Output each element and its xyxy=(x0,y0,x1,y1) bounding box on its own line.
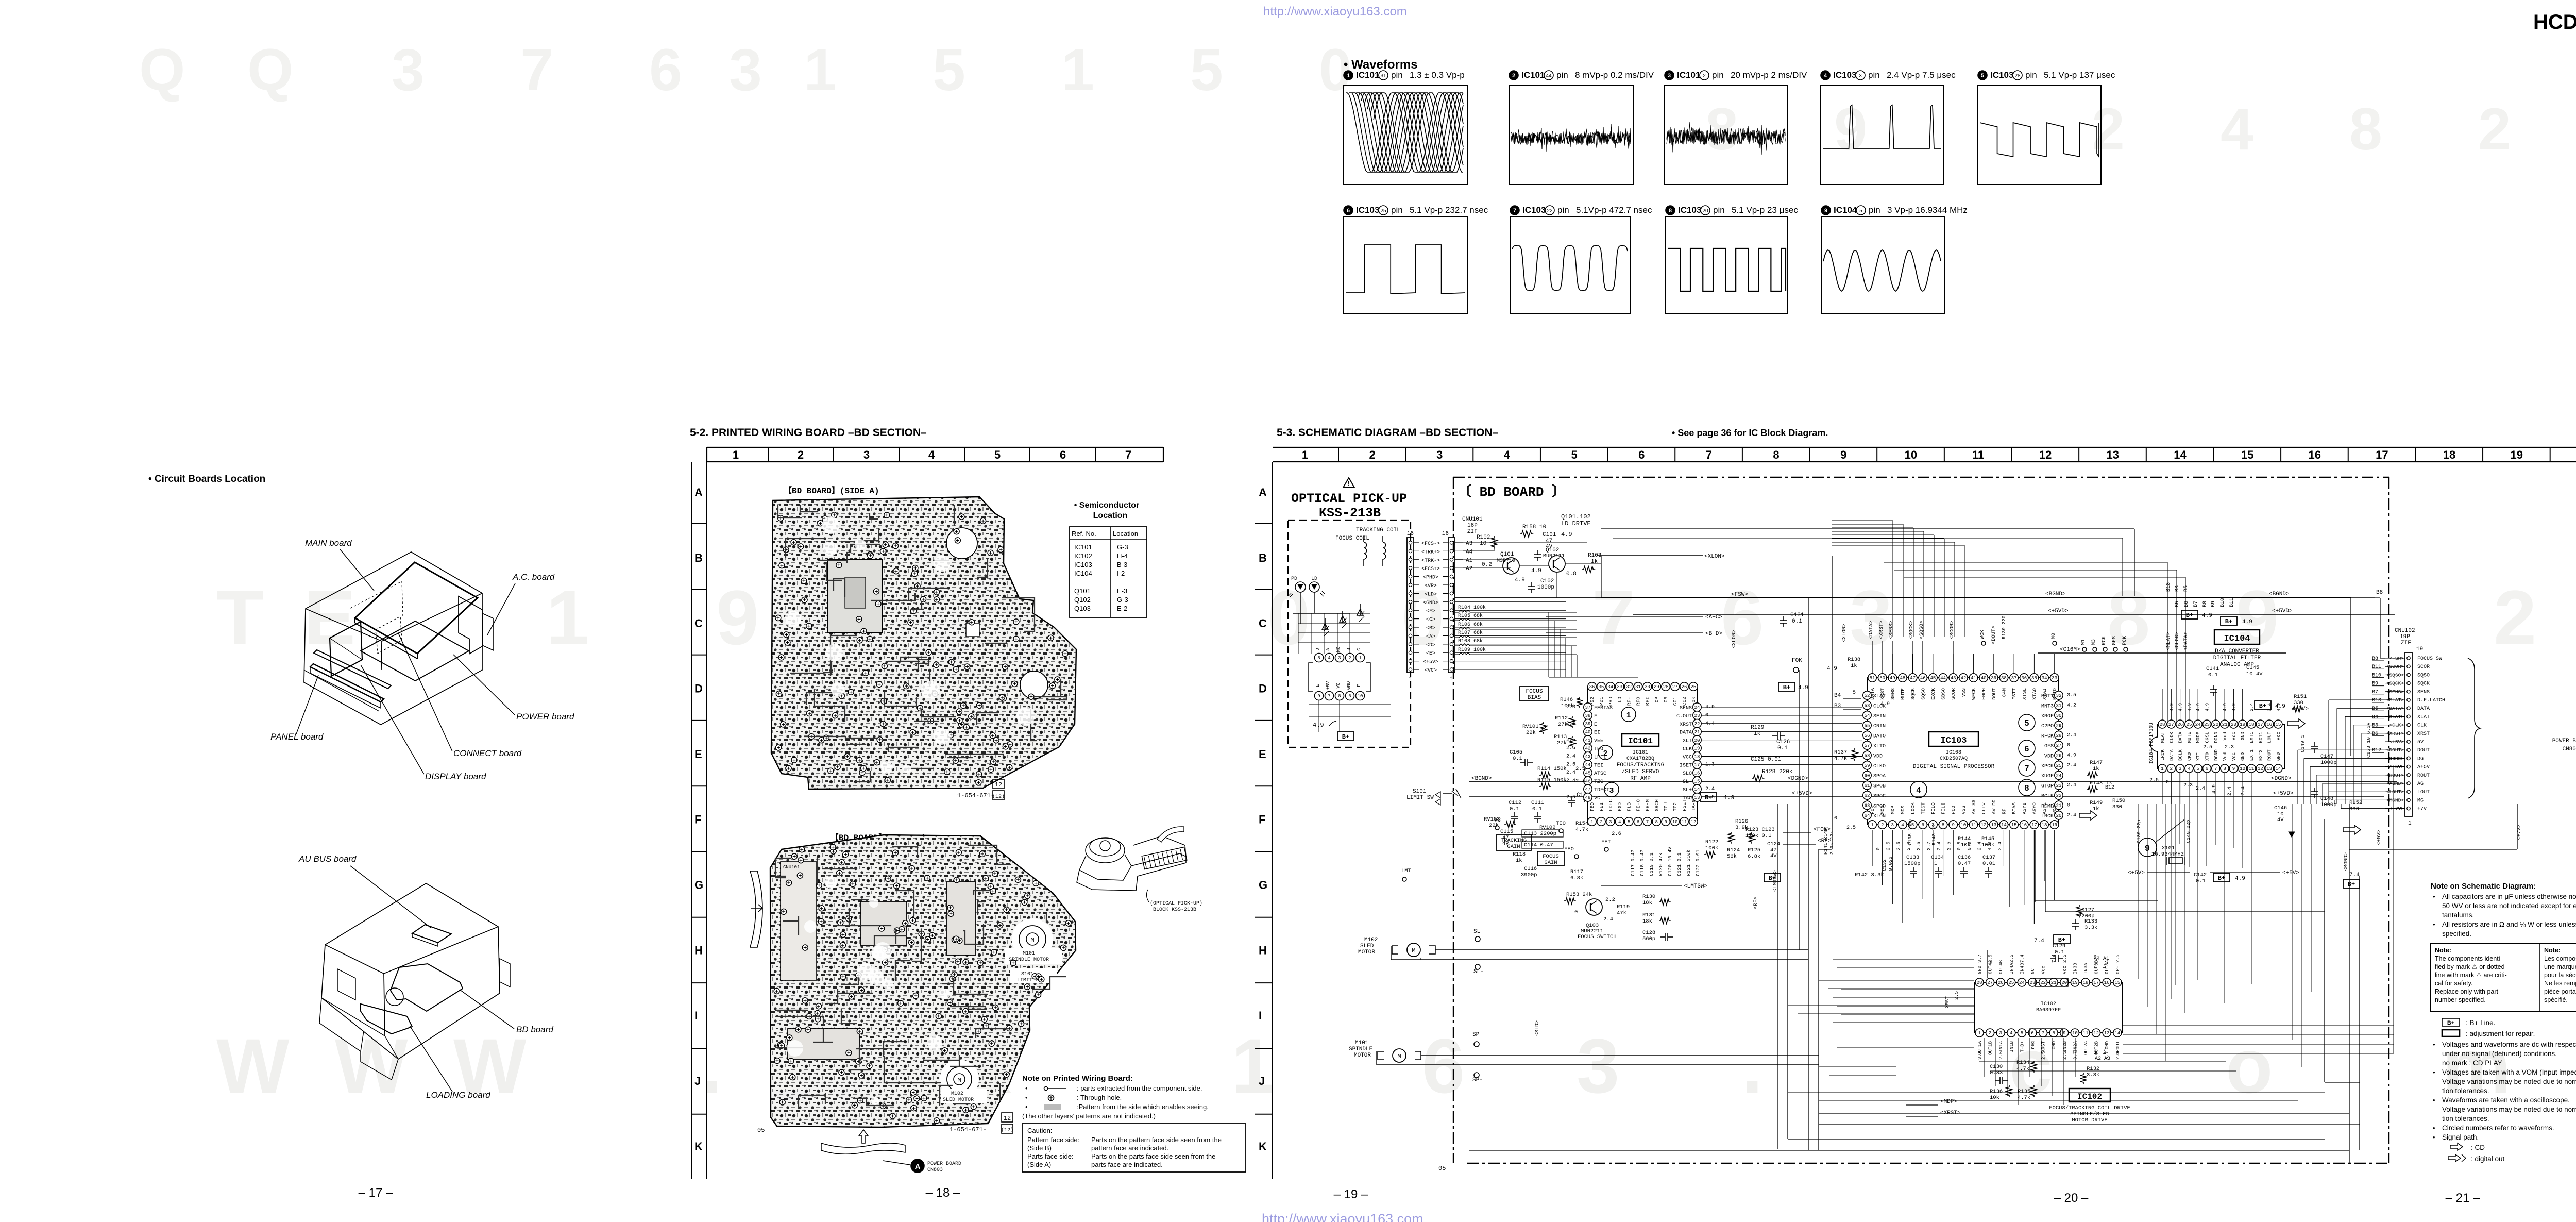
signal path arrows analog out xyxy=(2343,825,2361,834)
svg-text:(Side B): (Side B) xyxy=(1027,1144,1052,1152)
svg-text:IC101: IC101 xyxy=(1628,736,1653,746)
LOADING board plate xyxy=(361,1004,412,1034)
svg-text:R135: R135 xyxy=(2018,1089,2030,1095)
svg-text:<+5V>: <+5V> xyxy=(1423,660,1438,665)
svg-text:54: 54 xyxy=(1865,713,1870,718)
svg-text:7: 7 xyxy=(1706,448,1712,461)
svg-text:AV SS: AV SS xyxy=(1971,799,1977,814)
svg-text:spécifié.: spécifié. xyxy=(2544,996,2568,1003)
svg-text:3: 3 xyxy=(1891,823,1894,828)
svg-text:4: 4 xyxy=(1901,823,1904,828)
IC103 top pins 51-33 xyxy=(1868,674,1876,682)
svg-text:5: 5 xyxy=(1571,448,1577,461)
svg-text:<TRK->: <TRK-> xyxy=(1421,558,1440,564)
svg-text:C.OUT: C.OUT xyxy=(1676,714,1692,719)
svg-text:POWER board: POWER board xyxy=(516,712,574,722)
svg-text:4: 4 xyxy=(1328,656,1330,661)
svg-text:11: 11 xyxy=(1682,819,1687,825)
pickup pin header upper xyxy=(1315,654,1324,662)
svg-text:/SLED SERVO: /SLED SERVO xyxy=(1622,769,1659,775)
svg-text:CNU101: CNU101 xyxy=(1462,516,1483,523)
svg-text:A+5V: A+5V xyxy=(2417,765,2430,771)
svg-text:SLED MOTOR: SLED MOTOR xyxy=(943,1097,974,1103)
svg-text:B-3: B-3 xyxy=(1117,561,1127,568)
svg-text:10: 10 xyxy=(1358,694,1363,699)
svg-text:11: 11 xyxy=(2249,766,2255,772)
svg-text:IC103: IC103 xyxy=(1940,736,1967,746)
svg-text:•: • xyxy=(2433,1096,2435,1104)
svg-text:SBSO: SBSO xyxy=(1941,688,1946,700)
svg-text:Pattern face side:: Pattern face side: xyxy=(1027,1136,1079,1144)
svg-text:C136: C136 xyxy=(1958,855,1971,861)
svg-text:FLB: FLB xyxy=(1626,802,1632,811)
svg-text:12: 12 xyxy=(1004,1115,1011,1122)
waveform ref circle 6 xyxy=(2019,740,2035,757)
svg-text:Q: Q xyxy=(247,37,293,103)
svg-text:53: 53 xyxy=(1865,704,1870,709)
svg-text:BCLK: BCLK xyxy=(2041,794,2054,799)
svg-text:C132: C132 xyxy=(1882,859,1887,871)
svg-text:<DATA>: <DATA> xyxy=(2183,632,2189,650)
svg-text:2.4: 2.4 xyxy=(1566,778,1575,784)
svg-text:30: 30 xyxy=(1645,684,1650,690)
svg-text:•: • xyxy=(2433,920,2435,928)
svg-text:12: 12 xyxy=(1690,819,1696,825)
waveform 8 scope box xyxy=(1666,216,1788,313)
svg-text:6: 6 xyxy=(1922,823,1924,828)
svg-text:<DGND>: <DGND> xyxy=(1788,776,1808,782)
svg-text:IN3B: IN3B xyxy=(2073,963,2078,974)
BD BOARD dash-dot border top xyxy=(1453,477,2389,478)
svg-text:C: C xyxy=(694,617,703,630)
svg-text:3900p: 3900p xyxy=(1521,872,1537,878)
svg-text:B+: B+ xyxy=(2348,881,2355,888)
svg-text:LOUT: LOUT xyxy=(2417,790,2430,795)
svg-text:8: 8 xyxy=(2349,96,2382,162)
svg-text:Location: Location xyxy=(1113,530,1138,538)
svg-text:2: 2 xyxy=(1881,823,1884,828)
svg-text:XLT: XLT xyxy=(1683,739,1692,744)
svg-text:8: 8 xyxy=(1773,448,1779,461)
svg-text:DATO: DATO xyxy=(1873,734,1886,740)
svg-text:B13: B13 xyxy=(2166,582,2172,592)
svg-text:0: 0 xyxy=(2166,780,2169,785)
svg-text:9: 9 xyxy=(1824,208,1827,214)
svg-text:2.5: 2.5 xyxy=(1916,842,1922,850)
svg-text:tantalums.: tantalums. xyxy=(2442,911,2474,919)
svg-text:•: • xyxy=(2433,1041,2435,1048)
svg-text:piéce portant le numéro: piéce portant le numéro xyxy=(2544,988,2576,995)
svg-text:1-654-671-: 1-654-671- xyxy=(950,1126,987,1133)
svg-text:R158 10: R158 10 xyxy=(1522,524,1546,530)
svg-text:C: C xyxy=(1259,617,1267,630)
svg-text:<PHD>: <PHD> xyxy=(1423,575,1438,581)
svg-text:4V: 4V xyxy=(2277,817,2284,823)
svg-text:T: T xyxy=(216,574,264,661)
svg-text:59: 59 xyxy=(1865,763,1870,768)
schematic grid ruler top xyxy=(1273,447,2576,448)
svg-text:SPINDLE/SLED: SPINDLE/SLED xyxy=(2070,1111,2109,1117)
svg-text:E: E xyxy=(1259,748,1266,761)
svg-text:7: 7 xyxy=(520,37,553,103)
svg-text:MOTOR: MOTOR xyxy=(1358,949,1375,956)
svg-text:28: 28 xyxy=(1663,684,1669,690)
svg-text:5-3. SCHEMATIC DIAGRAM –BD: 5-3. SCHEMATIC DIAGRAM –BD SECTION– xyxy=(1277,427,1498,439)
svg-text:: B+ Line.: : B+ Line. xyxy=(2466,1019,2495,1027)
svg-text:Vcc: Vcc xyxy=(2062,966,2067,974)
note box bilingual xyxy=(2431,943,2576,1011)
svg-text:SENS: SENS xyxy=(1680,706,1692,711)
svg-text:The components identi-: The components identi- xyxy=(2435,955,2502,962)
svg-text:<BGND>: <BGND> xyxy=(2269,591,2290,597)
svg-text:2.5: 2.5 xyxy=(2149,778,2159,783)
PWB section grid ruler top xyxy=(707,447,1163,448)
svg-text:SPINDLE: SPINDLE xyxy=(1349,1046,1373,1052)
svg-text:C121 0.1: C121 0.1 xyxy=(1676,852,1682,876)
svg-text:<GND>: <GND> xyxy=(1423,600,1438,606)
SIDE B motor M102 sled xyxy=(940,1060,979,1099)
B+ marker top right xyxy=(2181,610,2198,619)
svg-text:R117: R117 xyxy=(1570,869,1583,875)
svg-text:28: 28 xyxy=(1977,980,1982,985)
svg-text:4: 4 xyxy=(1618,819,1621,825)
svg-text:B8: B8 xyxy=(2376,590,2383,596)
svg-text:T+: T+ xyxy=(2093,963,2098,969)
svg-text:R145: R145 xyxy=(1981,836,1994,842)
IC101 right pins 24-13 xyxy=(1693,703,1701,711)
svg-text:<RF>: <RF> xyxy=(1818,838,1831,844)
svg-text:G-3: G-3 xyxy=(1117,543,1128,551)
svg-text:XRST: XRST xyxy=(2041,1041,2046,1052)
svg-text:2.4: 2.4 xyxy=(1603,916,1613,923)
svg-text:Location: Location xyxy=(1093,511,1128,520)
svg-text:R129: R129 xyxy=(1751,725,1764,731)
svg-text:<A+C>: <A+C> xyxy=(1705,614,1722,621)
svg-text:: Through hole.: : Through hole. xyxy=(1077,1094,1122,1101)
svg-text:: adjustment for repair.: : adjustment for repair. xyxy=(2466,1030,2535,1037)
svg-text:Signal path.: Signal path. xyxy=(2442,1133,2479,1141)
svg-text:<+5VD>: <+5VD> xyxy=(1792,791,1812,797)
svg-text:IN4A: IN4A xyxy=(2009,963,2014,974)
svg-text:B+: B+ xyxy=(2225,618,2232,625)
svg-text:100k: 100k xyxy=(1561,703,1574,709)
svg-text:19: 19 xyxy=(1694,746,1700,751)
svg-text:All capacitors are in μF unles: All capacitors are in μF unless otherwis… xyxy=(2442,893,2576,900)
svg-text:pin: pin xyxy=(2025,70,2037,80)
waveform 3 label xyxy=(1665,71,1674,80)
svg-text:R137: R137 xyxy=(1834,749,1847,756)
svg-text:F+: F+ xyxy=(2093,1049,2098,1054)
svg-text:• Semiconductor: • Semiconductor xyxy=(1074,501,1140,510)
svg-text:E-3: E-3 xyxy=(1117,587,1127,595)
svg-text:2.5: 2.5 xyxy=(1895,842,1901,850)
svg-text:IC103: IC103 xyxy=(1074,561,1092,568)
svg-text:<SQSO>: <SQSO> xyxy=(2386,672,2404,678)
svg-text:8: 8 xyxy=(1338,694,1341,699)
svg-text:MSB710: MSB710 xyxy=(1497,558,1515,564)
CNU101 net labels xyxy=(1414,542,1419,543)
svg-text:CLK: CLK xyxy=(2417,723,2427,729)
svg-text:2.5: 2.5 xyxy=(1946,842,1952,850)
svg-text:IC101: IC101 xyxy=(1074,543,1092,551)
svg-text:R120 47k: R120 47k xyxy=(1658,852,1664,876)
svg-text:18k: 18k xyxy=(1642,900,1652,906)
IC103 left pins 52-64 xyxy=(1863,691,1871,699)
waveform 9 scope box xyxy=(1821,216,1944,313)
svg-text:IC104: IC104 xyxy=(1074,570,1092,577)
svg-text:4V: 4V xyxy=(1770,853,1777,859)
svg-text:34: 34 xyxy=(2042,676,2047,681)
svg-text:A3: A3 xyxy=(2104,1056,2110,1062)
svg-text:20 mVp-p 2 ms/DIV: 20 mVp-p 2 ms/DIV xyxy=(1731,70,1807,80)
SIDE B trace squiggles xyxy=(841,977,858,984)
svg-text:CONNECT board: CONNECT board xyxy=(453,748,522,758)
upper +5VD bus xyxy=(1633,614,2395,615)
svg-text:line with mark ⚠ are criti-: line with mark ⚠ are criti- xyxy=(2435,972,2507,979)
svg-text:50: 50 xyxy=(1879,676,1885,681)
svg-text:CN803: CN803 xyxy=(2562,746,2576,752)
svg-text:IC103: IC103 xyxy=(1990,70,2013,80)
svg-text:<F>: <F> xyxy=(1426,609,1435,614)
svg-text:B6: B6 xyxy=(2184,601,2190,607)
waveform 2 label xyxy=(1509,71,1518,80)
svg-text:2.5: 2.5 xyxy=(2115,955,2121,963)
svg-text:B+: B+ xyxy=(1342,733,1349,741)
svg-text:FOK: FOK xyxy=(1870,806,1875,814)
IC103 top pin feeds xyxy=(1872,654,1873,673)
svg-text:FOK: FOK xyxy=(1792,658,1802,664)
svg-text:(12): (12) xyxy=(992,794,1005,800)
svg-text:FILO: FILO xyxy=(1930,802,1936,814)
svg-text:XTAO: XTAO xyxy=(2031,688,2037,700)
svg-text:DISPLAY board: DISPLAY board xyxy=(425,772,486,781)
svg-text:5: 5 xyxy=(1859,208,1862,214)
svg-text:!: ! xyxy=(1348,479,1350,488)
svg-text:AU BUS board: AU BUS board xyxy=(298,854,357,864)
svg-text:R138: R138 xyxy=(1848,657,1860,663)
svg-text:C137: C137 xyxy=(1982,855,1995,861)
svg-text:2: 2 xyxy=(1600,819,1602,825)
svg-text:RFCK: RFCK xyxy=(2041,734,2054,740)
svg-text:28: 28 xyxy=(2014,73,2021,79)
svg-text:4: 4 xyxy=(2010,1031,2012,1036)
svg-text:H: H xyxy=(1259,944,1267,957)
svg-text:<DGND>: <DGND> xyxy=(2386,756,2404,761)
svg-text:18: 18 xyxy=(2042,823,2047,828)
svg-text:45: 45 xyxy=(1930,676,1936,681)
svg-text:•: • xyxy=(1025,1084,1028,1092)
svg-text:44: 44 xyxy=(1546,73,1552,79)
POWER BOARD callout A xyxy=(911,1159,924,1173)
svg-text:2.4: 2.4 xyxy=(2067,783,2076,789)
IC104 bottom to crystal verticals xyxy=(2171,773,2172,999)
svg-text:0: 0 xyxy=(1574,909,1578,915)
svg-text:1: 1 xyxy=(1409,676,1413,682)
svg-text:2.4: 2.4 xyxy=(1566,754,1575,759)
svg-text:15: 15 xyxy=(2011,823,2017,828)
svg-text:M102: M102 xyxy=(1364,937,1378,943)
svg-text:<+7V>: <+7V> xyxy=(2517,825,2522,840)
lower mid horizontal wires xyxy=(1819,980,1974,981)
svg-text:<SCOR>: <SCOR> xyxy=(2386,664,2404,669)
svg-text:OUT1B: OUT1B xyxy=(1988,1041,1993,1055)
svg-text:6: 6 xyxy=(1637,819,1639,825)
FSW net line xyxy=(1601,597,2375,598)
svg-text:Les composants identifiés par: Les composants identifiés par xyxy=(2544,955,2576,962)
svg-text:47: 47 xyxy=(1910,676,1916,681)
svg-text:0.1: 0.1 xyxy=(1513,756,1522,762)
svg-text:SQCK: SQCK xyxy=(2417,681,2430,687)
svg-text:R152: R152 xyxy=(2349,800,2362,806)
svg-text:57: 57 xyxy=(1865,743,1870,748)
svg-text:LD DRIVE: LD DRIVE xyxy=(1561,520,1591,527)
svg-text:C125 0.01: C125 0.01 xyxy=(1751,757,1782,763)
svg-text:C119 0.1: C119 0.1 xyxy=(1649,852,1654,876)
SIDE A IC footprint xyxy=(827,559,882,633)
waveform 4 trace spikes xyxy=(1823,105,1941,148)
svg-text:GND: GND xyxy=(2241,752,2246,761)
svg-text:VCC: VCC xyxy=(1683,755,1692,760)
focus gain box xyxy=(1537,851,1564,866)
svg-text:Voltage variations may be note: Voltage variations may be noted due to n… xyxy=(2442,1078,2576,1085)
IC104 top pins 28-15 xyxy=(2158,720,2166,728)
svg-text:CC2: CC2 xyxy=(1682,697,1687,706)
svg-text:pour la sécurité.: pour la sécurité. xyxy=(2544,972,2576,979)
svg-text:5: 5 xyxy=(2021,1031,2023,1036)
svg-text:27: 27 xyxy=(1672,684,1678,690)
svg-text:reg: reg xyxy=(2030,1041,2036,1049)
svg-text:<+5VD>: <+5VD> xyxy=(2048,608,2069,614)
svg-text:0.1: 0.1 xyxy=(2055,949,2064,956)
svg-text:TRACKING COIL: TRACKING COIL xyxy=(1356,527,1400,533)
svg-text:M0: M0 xyxy=(2051,633,2057,639)
BD BOARD SIDE A pcb outline xyxy=(771,497,1076,789)
svg-text:40: 40 xyxy=(1981,676,1987,681)
svg-text:25: 25 xyxy=(1690,684,1696,690)
svg-text:OUT4B: OUT4B xyxy=(1998,960,2004,974)
svg-text:MOTOR DRIVE: MOTOR DRIVE xyxy=(2072,1117,2107,1124)
svg-text:tion tolerances.: tion tolerances. xyxy=(2442,1087,2489,1095)
svg-text:<BGND>: <BGND> xyxy=(1471,776,1492,782)
SIDE B flex strip bottom xyxy=(821,1143,905,1154)
svg-text:CKSL: CKSL xyxy=(2205,732,2210,743)
svg-text:2: 2 xyxy=(1989,1031,1991,1036)
svg-text:XRST: XRST xyxy=(2417,731,2430,737)
svg-text:6: 6 xyxy=(649,37,682,103)
SIDE B bottom arrow xyxy=(859,1130,868,1143)
svg-text:B: B xyxy=(1346,648,1351,651)
svg-text:B11: B11 xyxy=(2229,598,2235,607)
svg-text:<XLON>: <XLON> xyxy=(1732,630,1737,648)
svg-text:RF: RF xyxy=(2001,808,2007,814)
svg-text:2: 2 xyxy=(798,448,804,461)
svg-text:3.5: 3.5 xyxy=(2067,693,2076,698)
svg-text:A: A xyxy=(915,1162,921,1171)
svg-text:I: I xyxy=(1259,1009,1262,1022)
svg-text:D: D xyxy=(694,682,703,695)
svg-text:1: 1 xyxy=(1302,448,1308,461)
svg-text:C127: C127 xyxy=(2081,907,2094,913)
svg-text:IC101: IC101 xyxy=(1677,70,1700,80)
svg-text:3: 3 xyxy=(1609,819,1612,825)
svg-text:R154: R154 xyxy=(1575,821,1588,827)
svg-text:D/A CONVERTER: D/A CONVERTER xyxy=(2215,648,2259,655)
pickup pin header lower xyxy=(1315,692,1324,700)
svg-text:4.9: 4.9 xyxy=(2196,703,2201,711)
svg-text:+5V: +5V xyxy=(1326,681,1331,690)
svg-text:MON: MON xyxy=(1880,806,1886,814)
svg-text:23: 23 xyxy=(1694,713,1700,718)
svg-text:6.8k: 6.8k xyxy=(1570,875,1583,881)
svg-text:6: 6 xyxy=(1638,448,1645,461)
svg-text:5: 5 xyxy=(1190,37,1223,103)
svg-text:SRCH: SRCH xyxy=(1654,799,1659,811)
svg-text:<SENS>: <SENS> xyxy=(2386,689,2404,695)
svg-text:32: 32 xyxy=(1626,684,1632,690)
upper BGND bus xyxy=(1455,597,2351,598)
waveform ref circle 9 xyxy=(2138,838,2157,857)
svg-text:R143 1M: R143 1M xyxy=(1931,825,1937,845)
svg-text:•: • xyxy=(2433,1124,2435,1132)
svg-text:Vcc: Vcc xyxy=(2231,732,2236,740)
svg-text:2.4: 2.4 xyxy=(1997,842,2003,850)
svg-text:48: 48 xyxy=(1900,676,1906,681)
svg-text:XTI: XTI xyxy=(2196,752,2201,761)
svg-text:25: 25 xyxy=(2186,722,2192,727)
svg-text:R121 510k: R121 510k xyxy=(1686,849,1691,876)
svg-text:9: 9 xyxy=(2063,1031,2065,1036)
SIDE A white patches xyxy=(1016,707,1035,725)
svg-text:FOCUS COIL: FOCUS COIL xyxy=(1335,535,1369,542)
svg-text:M: M xyxy=(1397,1053,1401,1060)
svg-text:4.9: 4.9 xyxy=(1798,685,1808,691)
svg-text:4.9: 4.9 xyxy=(2275,704,2285,710)
svg-text:DATA: DATA xyxy=(2169,749,2174,761)
svg-text:R122: R122 xyxy=(1705,839,1718,845)
svg-text:35: 35 xyxy=(2031,676,2037,681)
svg-text:13: 13 xyxy=(1694,795,1700,800)
svg-text:CN803: CN803 xyxy=(927,1167,943,1173)
svg-text:A: A xyxy=(1326,648,1331,651)
svg-text:8: 8 xyxy=(2223,766,2226,772)
svg-text:12: 12 xyxy=(995,781,1002,789)
svg-text:ZIF: ZIF xyxy=(2401,640,2411,646)
svg-text:1: 1 xyxy=(1347,73,1350,79)
svg-text:C147: C147 xyxy=(2320,754,2333,760)
svg-text:23: 23 xyxy=(2030,980,2036,985)
waveform 7 label xyxy=(1510,206,1519,215)
svg-text:BIAS: BIAS xyxy=(1528,695,1541,701)
svg-text:SQSO: SQSO xyxy=(2417,673,2430,678)
svg-text:56k: 56k xyxy=(1727,853,1737,860)
svg-text:13: 13 xyxy=(2104,1031,2110,1036)
svg-text:2.4: 2.4 xyxy=(2067,733,2076,739)
waveform 6 trace pulses xyxy=(1346,245,1465,294)
BD BOARD label xyxy=(1456,479,1554,500)
svg-text:AG: AG xyxy=(2417,781,2424,787)
svg-text:6: 6 xyxy=(2025,745,2029,754)
svg-text:C134: C134 xyxy=(1931,855,1944,861)
svg-text:SLO: SLO xyxy=(1683,771,1692,777)
svg-text:GND: GND xyxy=(2276,752,2281,761)
BD BOARD SIDE B pcb outline xyxy=(770,835,1076,1127)
svg-text:<XLON>: <XLON> xyxy=(1704,554,1725,560)
svg-text:23: 23 xyxy=(2056,783,2062,789)
svg-text:21: 21 xyxy=(2222,722,2228,727)
svg-text:25: 25 xyxy=(2008,980,2014,985)
svg-text:R113: R113 xyxy=(1554,734,1567,740)
svg-text:5: 5 xyxy=(2196,766,2199,772)
